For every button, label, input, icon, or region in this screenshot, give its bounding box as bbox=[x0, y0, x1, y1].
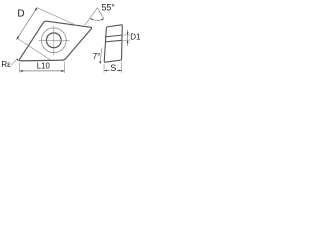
svg-text:D: D bbox=[17, 9, 24, 20]
svg-text:L10: L10 bbox=[37, 62, 51, 71]
svg-text:D1: D1 bbox=[130, 33, 141, 42]
svg-text:7°: 7° bbox=[93, 52, 101, 61]
svg-text:S: S bbox=[110, 63, 116, 73]
svg-text:Rε: Rε bbox=[1, 60, 11, 69]
svg-text:55°: 55° bbox=[102, 3, 115, 13]
